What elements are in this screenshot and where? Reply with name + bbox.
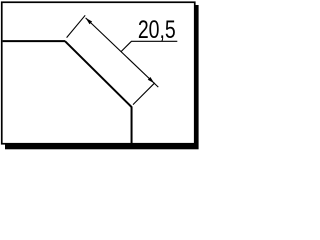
arrowhead 2 (points down-right) xyxy=(148,77,155,83)
leader line xyxy=(121,41,177,51)
extension line 1 (top) xyxy=(67,15,86,37)
drop shadow xyxy=(5,5,199,149)
extension line 2 (bottom) xyxy=(133,83,155,105)
part outline: vertical edge xyxy=(131,107,133,144)
dimension line xyxy=(86,18,159,87)
part outline: horizontal edge xyxy=(3,40,65,42)
part outline: chamfer edge xyxy=(65,41,132,107)
svg-text:20,5: 20,5 xyxy=(138,16,176,44)
page frame xyxy=(2,2,195,144)
page background xyxy=(0,0,202,154)
arrowhead 1 (points up-left) xyxy=(86,18,93,24)
